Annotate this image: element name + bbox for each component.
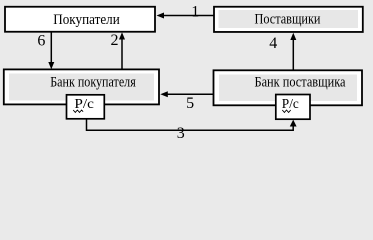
arrow 1: Поставщики to Покупатели: [163, 15, 214, 17]
box Р/с left: [67, 95, 105, 119]
svg-text:Банк покупателя: Банк покупателя: [50, 75, 136, 91]
squiggle under Р (right): [282, 110, 290, 112]
arrow 5: Банк поставщика to Банк покупателя: [167, 93, 214, 95]
svg-text:Покупатели: Покупатели: [53, 12, 120, 28]
svg-text:2: 2: [111, 32, 119, 49]
squiggle under Р (left): [73, 110, 83, 112]
box Р/с right: [276, 95, 310, 120]
arrow 4: Банк поставщика up to Поставщики: [292, 39, 294, 71]
svg-text:6: 6: [37, 33, 45, 50]
box Банк поставщика: [214, 70, 363, 105]
svg-text:1: 1: [191, 4, 199, 21]
box Покупатели: [5, 7, 155, 32]
svg-text:3: 3: [177, 125, 185, 142]
box Поставщики: [214, 7, 363, 32]
svg-text:Р/с: Р/с: [282, 97, 299, 112]
svg-text:Поставщики: Поставщики: [255, 12, 321, 28]
arrow 3: Р/с left to Р/с right: [87, 119, 294, 131]
svg-text:5: 5: [186, 95, 194, 112]
arrow 6: Покупатели down to Банк покупателя: [50, 32, 52, 63]
svg-text:Банк поставщика: Банк поставщика: [255, 75, 346, 91]
arrow 2: Банк покупателя up to Покупатели: [121, 38, 123, 70]
svg-text:4: 4: [269, 35, 277, 52]
box Банк покупателя: [4, 69, 159, 104]
